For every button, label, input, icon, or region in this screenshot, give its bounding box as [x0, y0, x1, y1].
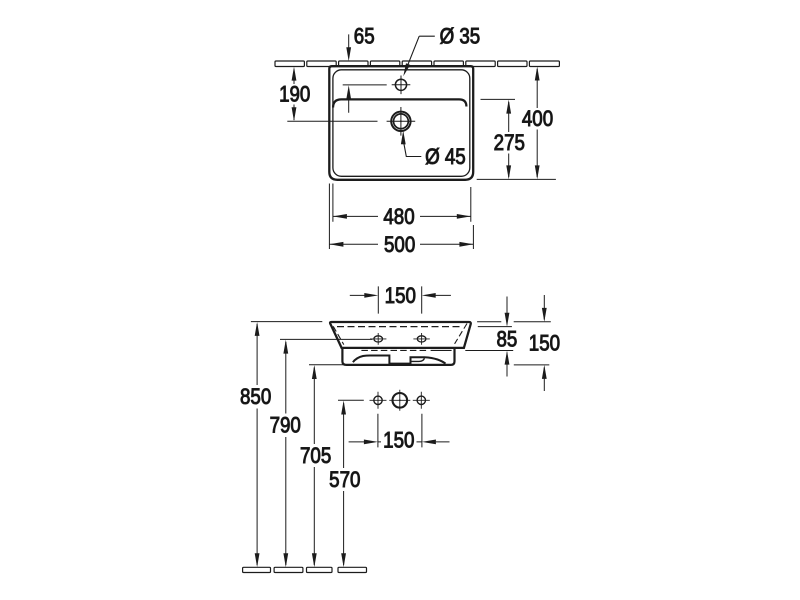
washbasin body outline (front view)	[330, 322, 471, 348]
basin back ledge line	[333, 99, 466, 107]
leader line for Ø 45	[404, 142, 422, 157]
wall line (tiled wall, plan view)	[275, 61, 559, 67]
drain hole Ø45 outer	[391, 112, 410, 131]
svg-text:790: 790	[270, 414, 301, 438]
svg-text:Ø 35: Ø 35	[440, 25, 481, 49]
right fixing hole	[413, 333, 429, 345]
svg-text:400: 400	[522, 108, 553, 132]
dimension 150 (fixing hole spacing, top)	[350, 286, 451, 313]
dimension 85 (rim height)	[465, 297, 551, 377]
svg-text:275: 275	[494, 132, 525, 156]
floor line (tiled floor)	[243, 567, 367, 572]
svg-text:850: 850	[240, 386, 271, 410]
dimension 190 (wall to drain center)	[287, 69, 377, 121]
drain hole Ø45 inner	[394, 114, 409, 129]
svg-text:705: 705	[300, 445, 331, 469]
svg-text:570: 570	[329, 469, 360, 493]
leader line for Ø 35	[406, 36, 435, 70]
dimension 790 (fixing holes to floor)	[280, 339, 373, 565]
dimension 150 (bolt hole spacing, bottom)	[349, 414, 450, 448]
dimension 65 (wall to tap hole)	[343, 34, 387, 112]
washbasin inner rim (plan view)	[333, 70, 470, 177]
dimension 275 (ledge to front edge)	[481, 99, 516, 177]
dimension 400 (basin depth, plan)	[477, 69, 556, 179]
left fixing hole	[370, 333, 386, 345]
dimension 150 (front height)	[514, 295, 550, 391]
left corner hidden diagonal	[333, 326, 344, 344]
recess pocket line	[411, 358, 425, 361]
wall bolt hole left	[370, 392, 387, 409]
svg-text:190: 190	[279, 83, 310, 107]
faucet hole Ø35 centerlines	[392, 76, 411, 95]
underside recess arch	[353, 356, 446, 364]
svg-text:150: 150	[383, 429, 414, 453]
faucet hole Ø35	[395, 79, 406, 90]
svg-text:Ø 45: Ø 45	[425, 146, 466, 170]
dimension 705 (underside to floor)	[309, 365, 356, 565]
washbasin outer rim (plan view)	[329, 66, 473, 180]
svg-text:480: 480	[383, 206, 414, 230]
wall bolt hole right	[413, 392, 430, 409]
right corner hidden diagonal	[455, 324, 467, 344]
drain hole Ø45 centerlines	[387, 107, 416, 136]
svg-text:500: 500	[384, 234, 415, 258]
dimension 570 (drain to floor)	[338, 400, 364, 565]
svg-text:65: 65	[354, 25, 375, 49]
dimension 850 (rim to floor)	[251, 322, 322, 565]
dimension 500 (outer width)	[329, 184, 473, 250]
drain pipe hole center	[389, 390, 410, 411]
rim hidden edge (dashed)	[337, 326, 462, 328]
semi-pedestal / underside outline	[342, 348, 454, 365]
svg-text:150: 150	[529, 332, 560, 356]
hidden bottom edge (dashed + solid)	[361, 349, 428, 351]
svg-text:150: 150	[385, 285, 416, 309]
dimension 480 (inner width)	[333, 184, 471, 222]
svg-text:85: 85	[496, 328, 517, 352]
